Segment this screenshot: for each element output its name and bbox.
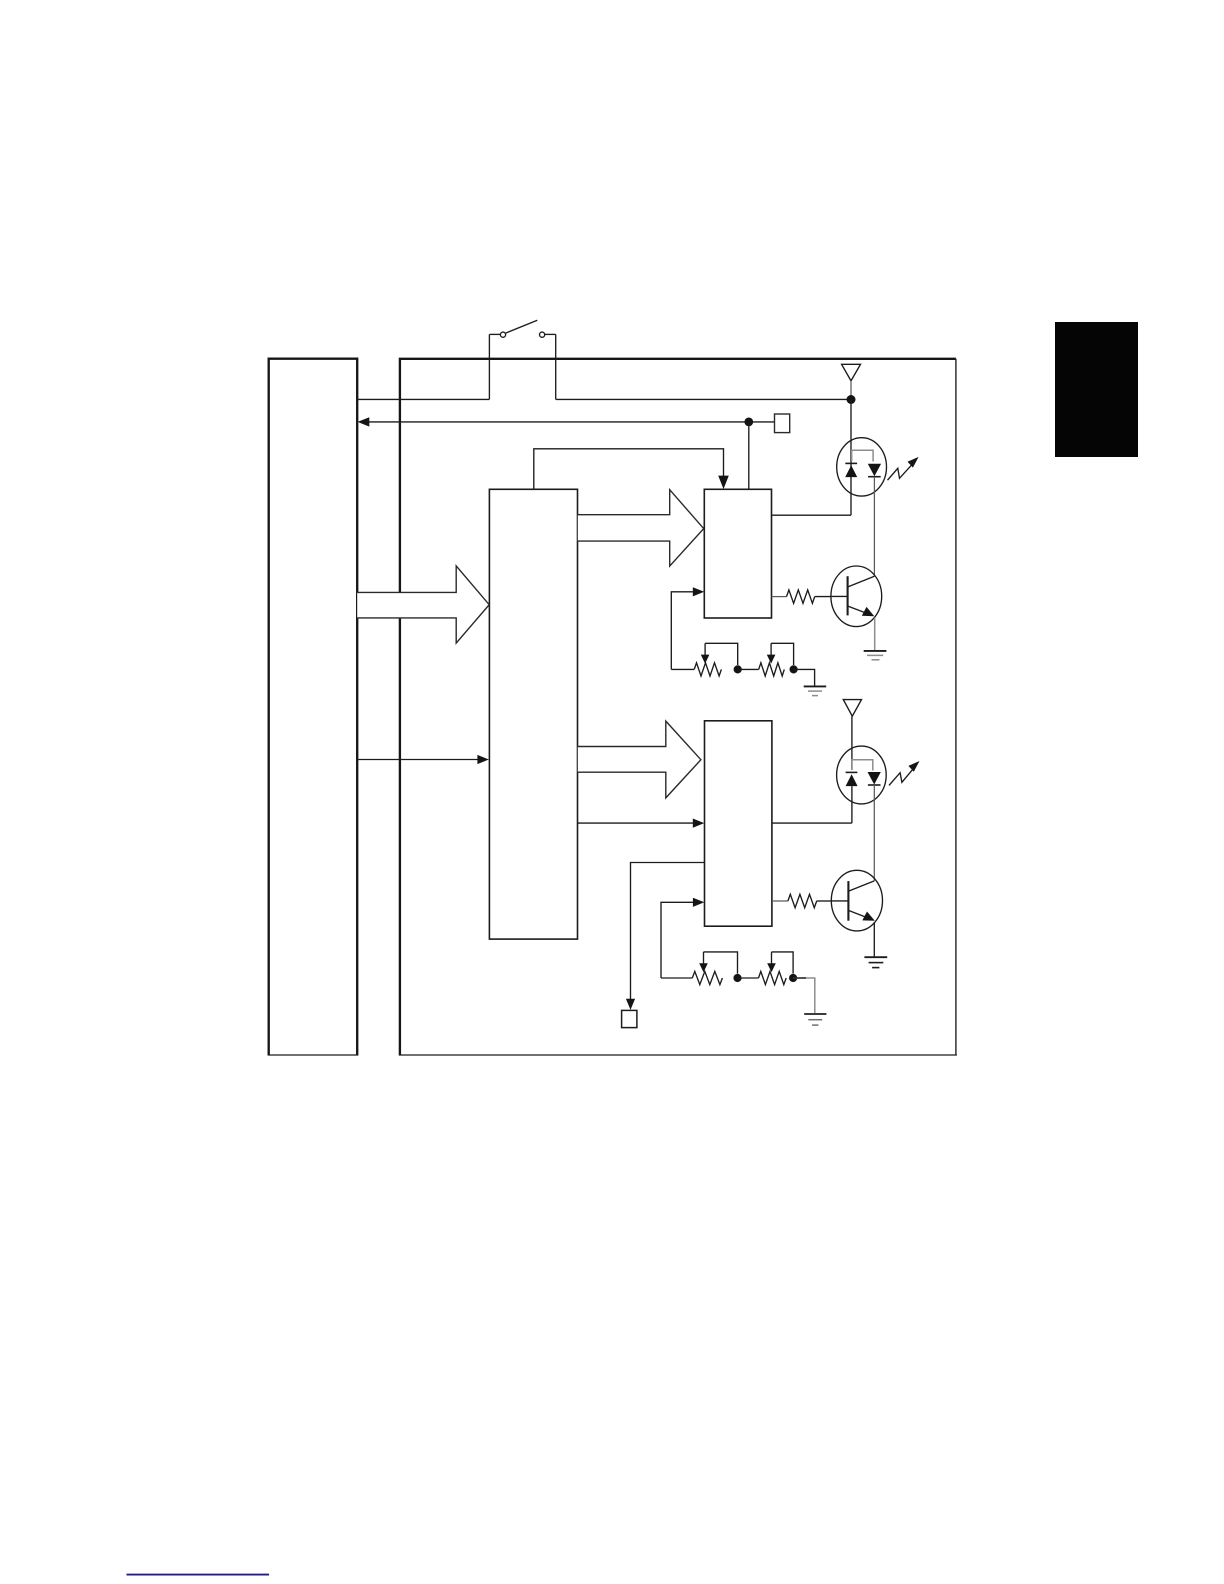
wire: U1 to U2 control (thin arrow) [357, 755, 489, 764]
node E (VR3/VR4 junction) [733, 974, 741, 982]
ground G1 (Q1 emitter) [864, 651, 887, 660]
ground G2 (channel 1 pots) [804, 686, 827, 695]
potentiometer VR3 (channel 2) [661, 952, 738, 985]
node D (VR2 output junction) [790, 665, 798, 673]
potentiometer VR4 (channel 2) [759, 952, 794, 985]
wire: U3 output to LD1 [772, 514, 852, 516]
connector pad CN2 (small square) [622, 1010, 637, 1027]
block PWB outline (laser drive board) [399, 359, 957, 1055]
light output arrow (channel 2) [889, 761, 920, 785]
transistor Q1 (NPN, channel 1) [831, 566, 882, 627]
wire: node B to U3 top [748, 422, 750, 489]
transistor Q2 (NPN, channel 2) [831, 870, 882, 931]
wire: VR1 to VR2 [738, 668, 759, 670]
node C (VR1/VR2 junction) [734, 665, 742, 673]
switch SW1 [489, 320, 555, 399]
power symbol V2 (supply triangle, channel 2) [843, 700, 861, 747]
wire: PD2 cathode / Q2 collector [873, 785, 875, 881]
connector pad CN1 (small square) [775, 414, 790, 433]
black tab marker [1055, 322, 1138, 457]
block U1 (controller, left tall block) [268, 359, 359, 1055]
potentiometer VR2 (channel 1) [759, 643, 794, 676]
laser diode LD2 (package with photodiode) [837, 746, 887, 823]
wire: +V power line left segment [357, 398, 489, 400]
resistor R2 (Q2 base) [772, 894, 831, 907]
ground G4 (channel 2 pots) [804, 1014, 826, 1025]
wire: APC feedback into U3 (thin arrow) [671, 587, 704, 669]
node A (power junction, channel 1) [847, 395, 856, 404]
wire: APC feedback into U4 (thin arrow) [661, 898, 704, 978]
resistor R1 (Q1 base) [772, 590, 832, 603]
wire: Q1 emitter to ground [874, 618, 876, 651]
blue footer rule [127, 1574, 270, 1576]
node F (VR4 output junction) [789, 974, 797, 982]
wire: +V power line right segment [556, 398, 851, 400]
wire: U2 to U4 control (thin arrow) [578, 819, 704, 828]
wire: VR2 to ground G2 [794, 669, 815, 685]
potentiometer VR1 (channel 1) [671, 643, 737, 676]
wire: VR4 to ground G4 [793, 978, 815, 1013]
wire: monitor feedback line to U1 (arrow left) [358, 417, 775, 426]
wire: U4 to connector CN2 (down arrow) [626, 863, 705, 1010]
wire: Q2 emitter to ground [873, 922, 875, 957]
block U3 (LD driver, channel 1) [704, 489, 771, 618]
bus arrow 2 (U2 to U3, wide hollow arrow) [578, 490, 704, 566]
wire: U2 to U3 sync (top loop with down arrow) [534, 449, 729, 490]
laser diode LD1 (package with photodiode) [837, 438, 887, 496]
ground G3 (Q2 emitter) [864, 957, 887, 967]
bus arrow 1 (U1 to U2, wide hollow arrow) [357, 566, 489, 643]
wire: VR3 to VR4 [738, 977, 759, 979]
block U4 (LD driver, channel 2) [705, 721, 772, 926]
bus arrow 3 (U2 to U4, wide hollow arrow) [578, 721, 701, 798]
light output arrow (channel 1) [888, 457, 919, 480]
block U2 (central ASIC) [489, 489, 577, 939]
node B (junction on monitor line) [744, 418, 753, 427]
wire: PD1 cathode / Q1 collector [873, 477, 875, 577]
power symbol V1 (supply triangle, channel 1) [842, 364, 861, 396]
wire: LD1 anode supply drop [850, 400, 852, 516]
wire: U4 output to LD2 [772, 822, 852, 824]
